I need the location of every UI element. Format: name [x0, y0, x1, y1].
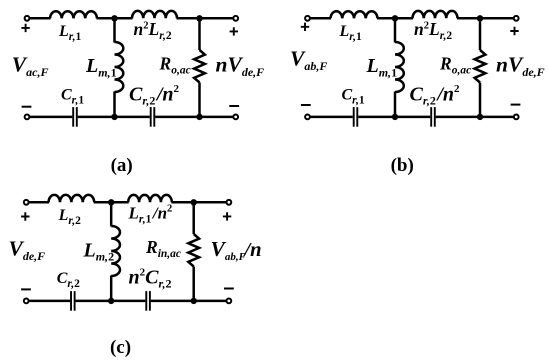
- svg-text:(c): (c): [110, 337, 131, 358]
- svg-text:Vab,F/n: Vab,F/n: [211, 237, 262, 263]
- wire top-middle segment (a): [97, 17, 133, 20]
- wire top-right segment (a): [177, 17, 234, 20]
- terminal bottom-left (c): [24, 299, 29, 304]
- capacitor C_r,2/n^2 (b) symbol: [430, 107, 432, 127]
- svg-text:n2Cr,2: n2Cr,2: [129, 267, 172, 291]
- resistor R_o,ac (a) symbol: [194, 50, 205, 83]
- wire resistor bottom lead (c): [192, 267, 195, 301]
- terminal top-left (a): [25, 16, 30, 21]
- polarity - right (c): [224, 288, 234, 290]
- terminal top-right (a): [233, 16, 238, 21]
- wire bottom-middle segment (b): [358, 116, 430, 119]
- wire resistor bottom lead (a): [198, 83, 201, 117]
- polarity + left (a): [21, 24, 29, 32]
- svg-text:nVde,F: nVde,F: [216, 53, 265, 79]
- wire shunt-inductor bottom lead (b): [394, 92, 397, 117]
- inductor L_m,1 (b) symbol (shunt): [395, 42, 404, 92]
- capacitor C_r,1 (a) symbol: [72, 107, 74, 127]
- node bottom-1 (b) (junction dot): [392, 114, 398, 120]
- wire top-right segment (c): [171, 201, 226, 204]
- polarity + left (c): [21, 212, 29, 220]
- svg-text:nVde,F: nVde,F: [496, 53, 545, 79]
- polarity + left (b): [301, 23, 309, 31]
- inductor L_r,2 (c) symbol: [49, 195, 95, 202]
- inductor n^2 L_r,2 (b) symbol: [413, 11, 458, 18]
- node top-1 (c) (junction dot): [108, 199, 114, 205]
- svg-text:Lr,1: Lr,1: [339, 23, 363, 43]
- wire shunt-inductor top lead (a): [113, 18, 116, 42]
- wire resistor top lead (b): [479, 18, 482, 50]
- wire bottom-left segment (c): [29, 300, 71, 303]
- resistor R_in,ac (c) symbol: [188, 234, 199, 267]
- svg-text:Vab,F: Vab,F: [290, 47, 327, 73]
- inductor L_r,1 (b) symbol: [331, 11, 378, 18]
- wire bottom-middle segment (a): [78, 116, 150, 119]
- polarity + right (a): [230, 27, 238, 35]
- capacitor C_r,1 (b) symbol: [353, 107, 355, 127]
- circuit (b): FHA equivalent circuit seen from V_ab side: [290, 11, 545, 176]
- inductor L_r,1 (a) symbol: [50, 11, 97, 18]
- svg-text:n2Lr,2: n2Lr,2: [134, 19, 172, 42]
- wire top-middle segment (c): [94, 201, 129, 204]
- node top-1 (a) (junction dot): [111, 15, 117, 21]
- svg-text:Cr,2/n2: Cr,2/n2: [129, 83, 180, 108]
- wire shunt-inductor bottom lead (c): [110, 276, 113, 301]
- node top-2 (a) (junction dot): [196, 15, 202, 21]
- capacitor n^2 C_r,2 (c) symbol: [145, 291, 147, 311]
- terminal bottom-right (a): [233, 115, 238, 120]
- terminal bottom-right (c): [226, 299, 231, 304]
- wire bottom-left segment (b): [310, 116, 353, 119]
- svg-text:Vde,F: Vde,F: [9, 237, 46, 263]
- polarity - left (a): [22, 106, 32, 108]
- resistor R_o,ac (b) symbol: [475, 50, 486, 83]
- wire shunt-inductor top lead (c): [110, 202, 113, 226]
- svg-text:Lm,2: Lm,2: [83, 239, 115, 263]
- svg-text:Ro,ac: Ro,ac: [439, 54, 471, 77]
- svg-text:n2Lr,2: n2Lr,2: [414, 19, 452, 42]
- polarity - right (b): [511, 104, 521, 106]
- wire top-left segment (c): [29, 201, 49, 204]
- inductor L_m,1 (a) symbol (shunt): [115, 42, 124, 92]
- inductor L_m,2 (c) symbol (shunt): [111, 226, 120, 276]
- polarity - left (c): [21, 288, 31, 290]
- polarity - left (b): [301, 104, 311, 106]
- polarity + right (c): [223, 212, 231, 220]
- wire top-right segment (b): [457, 17, 514, 20]
- wire bottom-right segment (c): [151, 300, 227, 303]
- wire bottom-middle segment (c): [76, 300, 146, 303]
- wire bottom-left segment (a): [29, 116, 72, 119]
- svg-text:Vac,F: Vac,F: [12, 52, 49, 78]
- svg-text:Lr,2: Lr,2: [58, 207, 82, 227]
- polarity - right (a): [229, 105, 239, 107]
- wire top-middle segment (b): [377, 17, 413, 20]
- node bottom-2 (b) (junction dot): [477, 114, 483, 120]
- wire bottom-right segment (b): [436, 116, 514, 119]
- wire resistor bottom lead (b): [479, 83, 482, 117]
- svg-text:Cr,1: Cr,1: [61, 86, 84, 106]
- svg-text:Lm,1: Lm,1: [366, 55, 398, 79]
- terminal top-right (c): [226, 200, 231, 205]
- node bottom-1 (a) (junction dot): [111, 114, 117, 120]
- node bottom-1 (c) (junction dot): [108, 298, 114, 304]
- terminal top-left (c): [24, 200, 29, 205]
- wire top-left segment (a): [29, 17, 50, 20]
- svg-text:Cr,1: Cr,1: [342, 86, 365, 106]
- svg-text:Lr,1/n2: Lr,1/n2: [128, 204, 173, 226]
- polarity + right (b): [510, 27, 518, 35]
- svg-text:Rin,ac: Rin,ac: [145, 237, 181, 260]
- terminal top-left (b): [305, 16, 310, 21]
- svg-text:Lr,1: Lr,1: [58, 23, 82, 43]
- wire bottom-right segment (a): [155, 116, 233, 119]
- wire shunt-inductor top lead (b): [394, 18, 397, 42]
- inductor n^2 L_r,2 (a) symbol: [132, 11, 177, 18]
- wire shunt-inductor bottom lead (a): [113, 92, 116, 117]
- svg-text:Lm,1: Lm,1: [85, 55, 117, 79]
- inductor L_r,1/n^2 (c) symbol: [128, 195, 172, 202]
- capacitor C_r,2 (c) symbol: [70, 291, 72, 311]
- terminal bottom-left (a): [25, 115, 30, 120]
- terminal top-right (b): [514, 16, 519, 21]
- node top-2 (c) (junction dot): [191, 199, 197, 205]
- circuit (a): FHA equivalent circuit seen from V_ac side: [12, 11, 264, 176]
- capacitor C_r,2/n^2 (a) symbol: [150, 107, 152, 127]
- svg-text:Cr,2: Cr,2: [57, 270, 80, 290]
- circuit (c): FHA equivalent circuit seen from V_de side: [9, 195, 262, 358]
- wire resistor top lead (a): [198, 18, 201, 50]
- terminal bottom-left (b): [305, 115, 310, 120]
- wire top-left segment (b): [310, 17, 331, 20]
- node top-2 (b) (junction dot): [477, 15, 483, 21]
- terminal bottom-right (b): [514, 115, 519, 120]
- node bottom-2 (a) (junction dot): [196, 114, 202, 120]
- svg-text:(a): (a): [111, 155, 133, 176]
- wire resistor top lead (c): [192, 202, 195, 234]
- svg-text:Ro,ac: Ro,ac: [159, 54, 191, 77]
- svg-text:(b): (b): [391, 155, 414, 176]
- node top-1 (b) (junction dot): [392, 15, 398, 21]
- node bottom-2 (c) (junction dot): [191, 298, 197, 304]
- svg-text:Cr,2/n2: Cr,2/n2: [410, 83, 461, 108]
